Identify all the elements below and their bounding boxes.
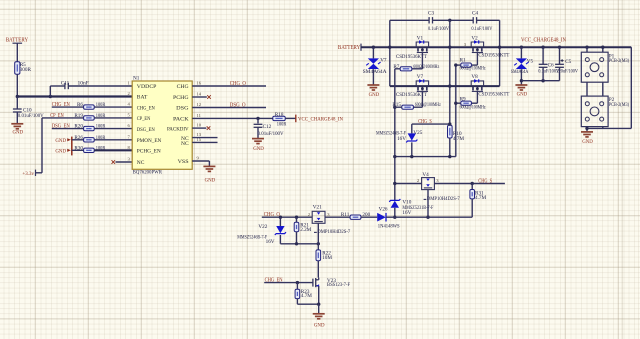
svg-text:16V: 16V: [266, 239, 275, 245]
svg-text:0.01uF/100V: 0.01uF/100V: [258, 131, 284, 137]
wire CHG_S row: [412, 123, 450, 125]
svg-text:BQ76200PWR: BQ76200PWR: [133, 169, 163, 175]
ground: [313, 314, 325, 319]
wire: [520, 69, 522, 84]
svg-text:C12: C12: [263, 124, 272, 130]
svg-text:CP_EN: CP_EN: [137, 116, 151, 122]
node: [295, 242, 298, 245]
svg-text:GND: GND: [205, 177, 216, 183]
svg-text:600Ω@100MHz: 600Ω@100MHz: [460, 66, 487, 71]
svg-text:5: 5: [128, 113, 131, 118]
wire: [42, 117, 84, 119]
wire pin3: [116, 161, 133, 163]
svg-text:4: 4: [128, 102, 131, 107]
ground: [11, 124, 23, 129]
svg-text:NC: NC: [137, 160, 145, 166]
wire pin14: [192, 96, 207, 98]
svg-text:C4: C4: [472, 11, 478, 17]
transistor V3 CSD19536KTT: [416, 81, 428, 86]
wire: [456, 102, 461, 104]
node: [448, 155, 451, 158]
transistor V2 CSD19536KTT: [471, 42, 483, 47]
svg-text:V2: V2: [471, 36, 478, 42]
svg-text:600Ω@100MHz: 600Ω@100MHz: [413, 65, 440, 70]
node: [520, 79, 523, 82]
svg-text:V25: V25: [413, 130, 422, 136]
wire: [257, 127, 259, 138]
TVS V5: [516, 58, 527, 63]
wire: [285, 117, 295, 119]
svg-text:BATTERY: BATTERY: [6, 37, 29, 44]
wire pin15 NC: [192, 141, 217, 143]
svg-text:R6: R6: [77, 102, 83, 108]
wire: [520, 47, 522, 58]
node: [393, 216, 396, 219]
resistor R6 100R: [84, 105, 95, 109]
transistor V4 DMP10H4D2S-7: [422, 178, 435, 190]
pin names right: [167, 84, 190, 165]
wire: [395, 68, 400, 70]
pin numbers right: [197, 81, 202, 161]
resistor R5: [15, 62, 20, 74]
zener V10 MMSZ5231B: [389, 199, 400, 202]
wire gate V1: [421, 53, 423, 69]
wire: [325, 216, 350, 218]
wire right loop: [630, 47, 632, 128]
wire: [395, 106, 402, 108]
wire: [257, 118, 259, 123]
resistor R26 100R: [84, 138, 95, 142]
node: [585, 46, 588, 49]
svg-text:1: 1: [128, 81, 131, 86]
svg-text:VCC_CHARGE48_IN: VCC_CHARGE48_IN: [298, 116, 343, 122]
svg-text:2.2M: 2.2M: [300, 227, 311, 233]
wire: [411, 124, 413, 133]
wire: [279, 235, 281, 244]
wire left column: [389, 20, 391, 86]
zener V25 MMSZ5246B: [408, 133, 416, 140]
ground: [252, 139, 264, 144]
capacitor C5: [559, 47, 561, 64]
svg-text:GND: GND: [314, 323, 325, 329]
wire P1 pins top: [586, 47, 588, 52]
wire pin10: [192, 127, 206, 129]
svg-text:4.7M: 4.7M: [475, 195, 486, 201]
node: [49, 95, 52, 98]
gnd port bar: [71, 137, 73, 156]
node: [448, 19, 451, 22]
svg-text:600Ω@100MHz: 600Ω@100MHz: [460, 106, 487, 111]
svg-text:4.7M: 4.7M: [453, 136, 464, 142]
svg-text:7: 7: [128, 134, 131, 139]
diode V26 1N4148WS: [377, 213, 386, 222]
transistor V21 DMP10H4D2S-7: [312, 211, 325, 223]
svg-text:GND: GND: [369, 92, 380, 98]
svg-text:VSS: VSS: [178, 159, 189, 165]
wire: [318, 304, 320, 313]
wire pin8: [94, 149, 132, 151]
wire: [72, 149, 84, 151]
svg-text:C3: C3: [428, 11, 434, 17]
wire: [16, 112, 18, 123]
wire top cap rail: [390, 19, 429, 21]
wire: [386, 216, 472, 218]
wire pin16 CHG: [192, 85, 266, 87]
wire: [52, 128, 84, 130]
svg-text:CSD19536KTT: CSD19536KTT: [478, 53, 510, 59]
node: [541, 46, 544, 49]
wire: [296, 232, 298, 244]
wire CHG gate column: [394, 69, 396, 200]
svg-text:BAT: BAT: [137, 95, 148, 101]
svg-text:SM4A64A: SM4A64A: [363, 69, 387, 75]
svg-text:V7: V7: [417, 74, 424, 80]
wire: [449, 138, 451, 157]
svg-text:C6: C6: [548, 63, 554, 69]
svg-text:3: 3: [128, 157, 131, 162]
wire pin4: [94, 106, 132, 108]
wire: [394, 208, 396, 217]
resistor R18 100R: [273, 116, 285, 120]
svg-text:V21: V21: [313, 204, 322, 210]
wire: [411, 142, 413, 156]
svg-text:9: 9: [197, 156, 200, 161]
wire P1-P2: [586, 82, 588, 96]
wire pin9 VSS: [192, 160, 209, 162]
node: [454, 102, 457, 105]
svg-text:GND: GND: [55, 149, 66, 155]
resistor R11 200: [350, 215, 361, 219]
wire: [296, 283, 298, 290]
wire gate row: [280, 243, 318, 245]
node: [256, 117, 259, 120]
resistor R7 600R: [400, 67, 412, 71]
node: [471, 182, 474, 185]
wire: [433, 19, 473, 21]
svg-text:3: 3: [327, 212, 330, 217]
wire cap gnd row: [521, 80, 559, 82]
capacitor C4: [473, 17, 476, 23]
resistor R1 600R: [461, 63, 472, 67]
svg-text:V5: V5: [527, 58, 534, 64]
wire source V23: [318, 286, 320, 304]
pin numbers left: [128, 81, 131, 162]
svg-text:C5: C5: [565, 59, 571, 65]
svg-text:2: 2: [308, 212, 311, 217]
no-ERC pin3: [112, 160, 116, 164]
svg-text:BATTERY: BATTERY: [338, 44, 361, 51]
node: [558, 46, 561, 49]
svg-text:SM4A64A: SM4A64A: [511, 69, 529, 75]
svg-text:V26: V26: [379, 206, 388, 212]
svg-text:CHG_O: CHG_O: [230, 81, 246, 87]
node: [520, 46, 523, 49]
wire main row: [361, 46, 631, 48]
svg-text:6: 6: [128, 123, 131, 128]
svg-text:V1: V1: [417, 36, 424, 42]
capacitor C12: [254, 124, 263, 127]
svg-text:12: 12: [197, 102, 202, 107]
transistor V8 CSD19536KTT: [471, 81, 483, 86]
svg-text:PCB-2(M3): PCB-2(M3): [609, 101, 629, 108]
wire: [317, 261, 319, 278]
capacitor C6: [542, 47, 544, 64]
node: [393, 155, 396, 158]
node: [388, 46, 391, 49]
wire mid column: [449, 20, 451, 125]
wire: [372, 47, 374, 58]
wire: [264, 282, 313, 284]
svg-text:MMSZ5246B-7-F: MMSZ5246B-7-F: [237, 234, 267, 240]
svg-text:PACK: PACK: [173, 117, 190, 123]
wire: [471, 199, 473, 217]
connector P2 PCB-2(M3): [581, 96, 608, 127]
resistor R22 10M: [316, 250, 321, 261]
svg-text:GND: GND: [55, 138, 66, 144]
capacitor C10: [16, 97, 18, 109]
wire: [296, 299, 298, 305]
no-ERC pin14: [207, 95, 211, 99]
ground P2: [581, 132, 593, 137]
svg-text:100R: 100R: [277, 122, 287, 128]
capacitor C11: [65, 83, 68, 89]
wire pin7: [94, 139, 132, 141]
wire: [16, 74, 18, 96]
wire pin12 DSG: [192, 107, 266, 109]
svg-text:+3.3v: +3.3v: [22, 171, 34, 177]
wire pin5: [94, 117, 132, 119]
svg-text:4.7M: 4.7M: [301, 293, 312, 299]
svg-text:GND: GND: [582, 139, 593, 145]
zener V22 MMSZ5246B: [279, 217, 281, 226]
svg-text:R30: R30: [74, 145, 83, 151]
svg-text:V4: V4: [422, 172, 429, 178]
node: [393, 106, 396, 109]
op-amp U1 BQ76200PWR body: [132, 81, 192, 169]
ground VSS: [203, 166, 215, 171]
wire: [434, 183, 505, 185]
resistor R30 100R: [84, 148, 95, 152]
svg-text:0.1uF/100V: 0.1uF/100V: [428, 26, 449, 32]
node: [295, 216, 298, 219]
wire gate V4: [427, 190, 429, 218]
node: [317, 303, 320, 306]
ground: [367, 85, 379, 90]
svg-text:DSG_O: DSG_O: [230, 102, 246, 108]
svg-text:2: 2: [417, 178, 420, 183]
wire: [456, 64, 461, 66]
node: [410, 155, 413, 158]
svg-text:VDDCP: VDDCP: [137, 84, 157, 90]
svg-text:CSD19536KTT: CSD19536KTT: [478, 91, 510, 97]
svg-text:3: 3: [436, 178, 439, 183]
svg-text:10: 10: [197, 123, 202, 128]
svg-text:R9: R9: [460, 96, 466, 102]
svg-text:10M: 10M: [322, 255, 332, 261]
resistor R20 100R: [84, 126, 95, 130]
pin names left: [137, 84, 162, 166]
svg-text:GND: GND: [253, 146, 264, 152]
wire lower fet row: [390, 85, 500, 87]
svg-text:R1: R1: [460, 57, 466, 63]
node: [601, 46, 604, 49]
wire gate V3: [421, 91, 423, 107]
resistor R23 4.7M: [295, 289, 300, 298]
wire BAT row: [17, 95, 132, 97]
svg-text:11: 11: [197, 113, 202, 118]
wire P2 bottom: [586, 127, 588, 132]
node: [585, 127, 588, 130]
node: [317, 242, 320, 245]
resistor R9 600R: [461, 101, 472, 105]
resistor R15 600R: [402, 105, 414, 109]
port VCC_CHARGE48_IN: [295, 115, 297, 123]
wire gate bus row: [395, 156, 456, 158]
ground: [515, 85, 527, 90]
wire +3.3v feed: [41, 118, 43, 173]
wire gate feed column: [455, 65, 457, 157]
svg-text:CHG_EN: CHG_EN: [137, 105, 155, 111]
wire drive row: [262, 216, 312, 218]
TVS V7: [368, 58, 379, 63]
svg-text:DMP10H4D2S-7: DMP10H4D2S-7: [427, 196, 460, 202]
svg-text:PACKDIV: PACKDIV: [167, 126, 189, 132]
resistor R10 4.7M: [448, 125, 453, 138]
wire: [372, 69, 374, 84]
node: [448, 122, 451, 125]
capacitor C3: [429, 17, 432, 23]
wire: [52, 106, 84, 108]
svg-text:GND: GND: [13, 129, 24, 135]
wire V4 row: [395, 183, 422, 185]
node: [393, 182, 396, 185]
svg-text:NC: NC: [181, 141, 189, 147]
wire pin13 NC: [192, 137, 217, 139]
wire right column: [499, 20, 501, 86]
svg-text:14: 14: [197, 92, 202, 97]
svg-text:CHG: CHG: [177, 84, 189, 90]
wire pin11 PACK: [192, 117, 273, 119]
svg-text:R19: R19: [74, 113, 83, 119]
wire gnd return: [587, 127, 631, 129]
node: [16, 95, 19, 98]
svg-text:PCHG_EN: PCHG_EN: [137, 148, 161, 154]
svg-text:GND: GND: [517, 92, 528, 98]
svg-text:0.01uF/100V: 0.01uF/100V: [18, 113, 44, 119]
connector P1 PCB-2(M3): [581, 52, 608, 82]
svg-text:300R: 300R: [20, 67, 32, 73]
svg-text:R18: R18: [275, 112, 284, 118]
svg-text:R26: R26: [74, 135, 83, 141]
node: [448, 84, 451, 87]
node: [279, 216, 282, 219]
wire: [49, 86, 51, 97]
svg-text:V7: V7: [380, 58, 387, 64]
svg-text:V8: V8: [471, 74, 478, 80]
svg-text:N1: N1: [133, 76, 140, 82]
svg-text:CHG_S: CHG_S: [478, 179, 492, 185]
no-ERC pin10: [207, 126, 211, 130]
resistor R19 100R: [84, 116, 95, 120]
node: [541, 79, 544, 82]
wire gate V21: [317, 223, 319, 244]
wire: [471, 184, 473, 190]
wire: [72, 139, 84, 141]
svg-text:600Ω@100MHz: 600Ω@100MHz: [415, 103, 442, 108]
resistor R21 2.2M: [296, 217, 298, 222]
wire pin6: [94, 128, 132, 130]
svg-text:PMON_EN: PMON_EN: [137, 138, 162, 144]
node: [498, 46, 501, 49]
svg-text:16: 16: [197, 81, 202, 86]
svg-text:R11: R11: [341, 212, 350, 218]
transistor V1 CSD19536KTT: [416, 42, 428, 47]
svg-text:8: 8: [128, 145, 131, 150]
svg-text:BSS123-7-F: BSS123-7-F: [327, 282, 350, 288]
node: [426, 216, 429, 219]
svg-text:V22: V22: [258, 224, 267, 230]
svg-text:VCC_CHARGE48_IN: VCC_CHARGE48_IN: [521, 38, 567, 44]
svg-text:16V: 16V: [397, 136, 406, 142]
node: [454, 63, 457, 66]
wire: [317, 244, 319, 250]
svg-text:3: 3: [464, 42, 467, 47]
node: [448, 46, 451, 49]
wire: [361, 216, 377, 218]
svg-text:0.1uF/100V: 0.1uF/100V: [471, 26, 492, 32]
svg-text:1N4148WS: 1N4148WS: [378, 223, 400, 229]
svg-text:PCHG: PCHG: [173, 95, 189, 101]
svg-text:R20: R20: [74, 124, 83, 130]
wire: [477, 19, 500, 21]
wire gate V8: [476, 91, 478, 103]
svg-text:DSG_EN: DSG_EN: [137, 127, 155, 133]
svg-text:DMP10H4D2S-7: DMP10H4D2S-7: [317, 229, 350, 235]
transistor V23 BSS123: [312, 279, 314, 287]
wire: [16, 43, 18, 62]
svg-text:DSG: DSG: [176, 106, 188, 112]
wire pin1: [68, 85, 132, 87]
resistor R31 4.7M: [470, 190, 475, 199]
wire gate V2: [476, 53, 478, 66]
svg-text:16V: 16V: [402, 210, 411, 216]
node: [372, 46, 375, 49]
node: [296, 281, 299, 284]
svg-text:PCB-2(M3): PCB-2(M3): [609, 57, 629, 64]
